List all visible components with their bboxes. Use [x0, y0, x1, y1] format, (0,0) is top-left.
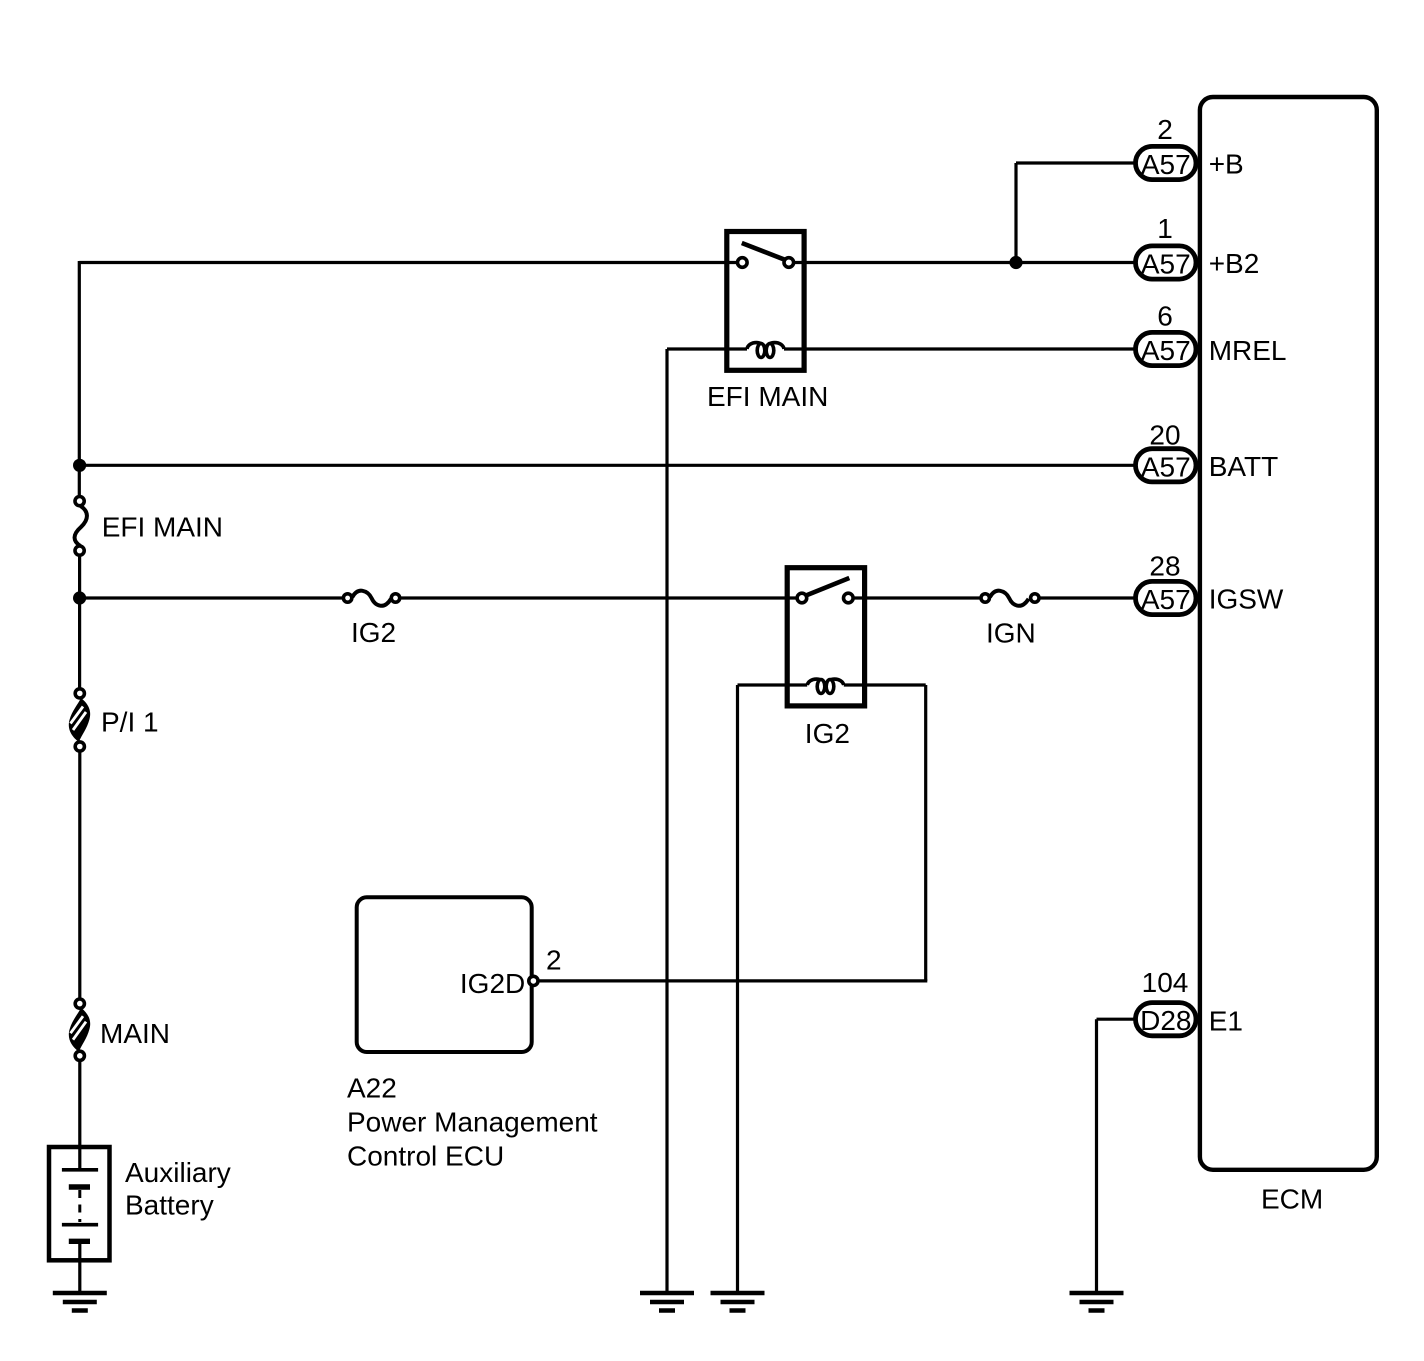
svg-text:A57: A57	[1141, 149, 1191, 180]
svg-text:BATT: BATT	[1209, 451, 1278, 482]
svg-text:2: 2	[1157, 114, 1173, 145]
svg-text:EFI MAIN: EFI MAIN	[102, 511, 223, 542]
svg-text:Battery: Battery	[125, 1190, 214, 1221]
svg-text:6: 6	[1157, 300, 1173, 331]
svg-text:IG2: IG2	[351, 617, 396, 648]
svg-text:2: 2	[546, 945, 562, 976]
svg-text:MAIN: MAIN	[100, 1018, 170, 1049]
svg-text:IGSW: IGSW	[1209, 584, 1284, 615]
svg-text:20: 20	[1149, 420, 1180, 451]
svg-text:D28: D28	[1140, 1005, 1191, 1036]
svg-text:MREL: MREL	[1209, 335, 1287, 366]
svg-text:A57: A57	[1141, 584, 1191, 615]
svg-text:A22: A22	[347, 1073, 397, 1104]
svg-text:P/I 1: P/I 1	[101, 707, 159, 738]
svg-text:EFI MAIN: EFI MAIN	[707, 381, 828, 412]
svg-text:Auxiliary: Auxiliary	[125, 1157, 231, 1188]
svg-text:ECM: ECM	[1261, 1184, 1323, 1215]
svg-text:+B2: +B2	[1209, 248, 1260, 279]
svg-text:A57: A57	[1141, 249, 1191, 280]
svg-text:104: 104	[1142, 967, 1189, 998]
svg-text:A57: A57	[1141, 451, 1191, 482]
svg-text:IG2D: IG2D	[460, 968, 525, 999]
svg-text:+B: +B	[1209, 149, 1244, 180]
svg-text:Power Management: Power Management	[347, 1107, 598, 1138]
svg-text:IGN: IGN	[986, 618, 1036, 649]
svg-text:A57: A57	[1141, 335, 1191, 366]
svg-text:IG2: IG2	[805, 718, 850, 749]
svg-text:28: 28	[1149, 550, 1180, 581]
svg-text:E1: E1	[1209, 1006, 1243, 1037]
svg-text:1: 1	[1157, 213, 1173, 244]
svg-text:Control ECU: Control ECU	[347, 1141, 504, 1172]
